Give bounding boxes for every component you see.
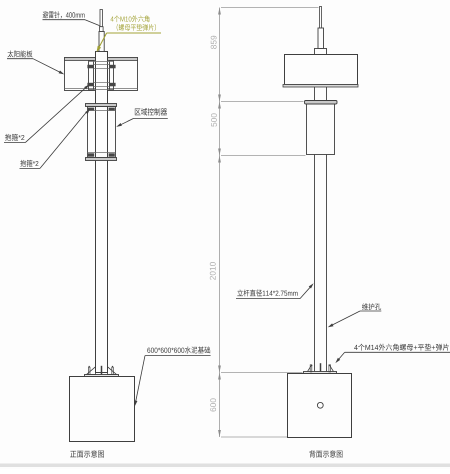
leader to controller clamp bolt + arrow (40, 112, 87, 168)
pole (back view) (314, 155, 316, 372)
dimension extension lines (221, 7, 319, 9)
controller bottom cap (front) (86, 158, 117, 161)
base plate (front) (85, 375, 119, 377)
caption: front view (70, 450, 104, 457)
hoop clamp bolts lower (front) (87, 83, 93, 87)
base gusset left (front) (87, 367, 96, 375)
caption: back view (309, 450, 342, 457)
label: zone controller (135, 108, 167, 115)
controller box (back) (307, 104, 335, 155)
label: maintenance hole (362, 303, 381, 310)
controller clamp bolts top (front) (88, 108, 94, 111)
hoop clamp bolts upper (front) (87, 65, 93, 69)
solar panel (front view) (65, 58, 138, 91)
solar panel edge (back view) (285, 55, 358, 85)
bottom frame band (0, 464, 450, 468)
leader to rod (85, 20, 100, 26)
concrete foundation (front) (70, 377, 135, 442)
pole (front view) (96, 52, 108, 373)
panel bottom rail (back) (283, 85, 358, 88)
leader to pole hole + arrow (332, 311, 361, 325)
dimension text 2010 (210, 262, 216, 280)
label: 4x M10 hex (olive) (111, 15, 150, 22)
label: lightning rod 400mm (43, 11, 85, 18)
label: 4x M14 hex nut + washer (354, 344, 449, 351)
label: hoop clamp x2 (upper) (5, 134, 24, 141)
controller box (front) (88, 107, 116, 158)
leader to anchor bolt + arrow (338, 352, 345, 360)
olive leader + arrow (97, 33, 106, 51)
dimension line (219, 8, 221, 438)
controller top cap (front) (86, 104, 117, 107)
dimension text 500 (211, 113, 217, 126)
controller cap (back) (305, 101, 338, 105)
label: 600*600*600 concrete foundation (147, 347, 210, 354)
dimension text 859 (211, 36, 217, 49)
rod mount block (back) (315, 49, 327, 55)
base gusset right (front) (108, 367, 117, 375)
leader to pole + arrow (300, 287, 310, 298)
label: hoop clamp x2 (lower) (20, 160, 38, 167)
clamp tie bars across pole (89, 61, 114, 63)
maintenance hole circle (317, 402, 323, 408)
dimension arrows (218, 8, 221, 15)
panel mounting strut left (89, 61, 94, 91)
base plate (back) (304, 372, 337, 374)
concrete foundation (back) (288, 374, 352, 438)
pole upper segment (back) (314, 87, 316, 101)
anchor bolts (back) (320, 363, 322, 371)
dimension text 600 (210, 398, 216, 411)
leader to foundation + arrow (136, 356, 145, 401)
leader to controller + arrow (120, 118, 134, 125)
leader to panel + arrow (33, 59, 61, 73)
lightning rod (front view) (100, 10, 102, 27)
leader to panel clamp bolt + arrow (25, 88, 85, 143)
label: solar panel (8, 50, 33, 57)
label: pole diameter 114*2.75mm (237, 289, 297, 296)
controller clamp bolts bottom (front) (88, 152, 116, 154)
anchor studs (front) (89, 367, 91, 374)
lightning rod (back view) (320, 7, 322, 29)
panel mounting strut right (110, 61, 114, 91)
